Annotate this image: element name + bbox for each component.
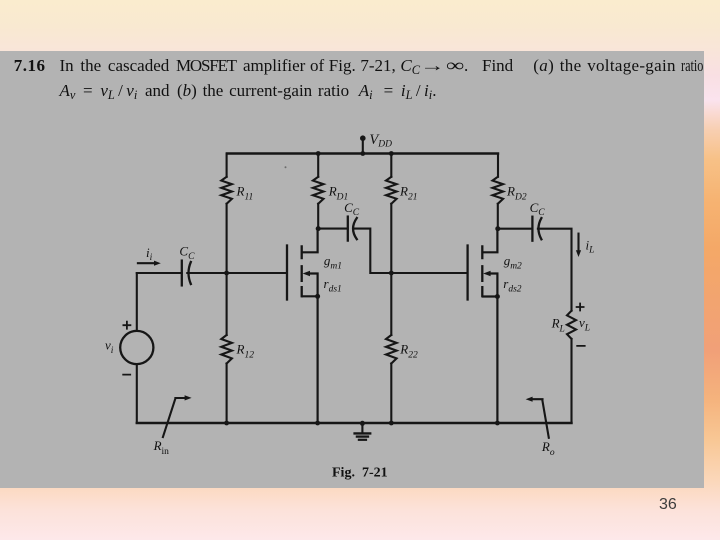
svg-text:R21: R21 <box>399 183 417 202</box>
svg-text:RL: RL <box>551 316 565 335</box>
svg-text:CC: CC <box>530 200 546 218</box>
svg-text:R11: R11 <box>236 183 254 202</box>
svg-text:R12: R12 <box>236 342 255 361</box>
svg-text:CC: CC <box>179 243 195 261</box>
svg-text:R22: R22 <box>399 342 418 361</box>
svg-text:RD2: RD2 <box>506 183 527 202</box>
svg-text:CC: CC <box>344 200 360 218</box>
svg-text:rds1: rds1 <box>324 276 342 294</box>
svg-text:vL: vL <box>579 315 590 333</box>
svg-text:iL: iL <box>586 237 595 255</box>
svg-text:Ro: Ro <box>541 439 555 458</box>
svg-text:gm2: gm2 <box>504 253 522 271</box>
svg-text:rds2: rds2 <box>503 276 522 294</box>
svg-text:ii: ii <box>146 245 153 263</box>
svg-text:gm1: gm1 <box>324 253 342 271</box>
svg-text:vi: vi <box>105 338 114 356</box>
svg-text:Rin: Rin <box>153 438 170 457</box>
svg-text:VDD: VDD <box>369 132 392 149</box>
svg-text:Fig. 7-21: Fig. 7-21 <box>332 466 388 481</box>
